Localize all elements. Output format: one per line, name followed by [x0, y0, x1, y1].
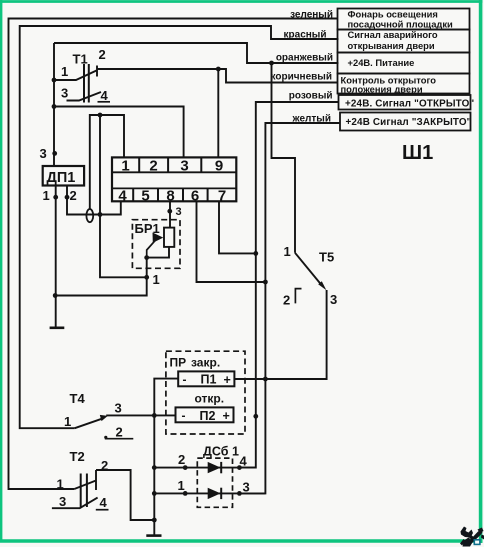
svg-text:положения двери: положения двери — [341, 84, 423, 95]
DS1 pin 2 terminal — [183, 465, 188, 470]
wire DS1 pin 2 row — [154, 467, 256, 469]
svg-text:4: 4 — [100, 495, 108, 510]
svg-text:1: 1 — [121, 157, 129, 174]
svg-text:1: 1 — [57, 477, 64, 492]
junction common bus pin1 row — [152, 491, 157, 496]
BR1 element bottom wire to inner node — [147, 247, 169, 258]
screwdriver handle — [463, 538, 474, 547]
signal box 6: +24В. Сигнал ЗАКРЫТО — [340, 113, 472, 131]
svg-text:+: + — [224, 373, 231, 387]
svg-text:2: 2 — [70, 188, 77, 203]
svg-text:3: 3 — [176, 206, 182, 218]
svg-text:П1: П1 — [201, 372, 217, 386]
top row separator line — [112, 171, 236, 173]
T1 pin 3 stub and blade — [67, 92, 102, 101]
junction node at (100,115) — [98, 113, 103, 118]
junction P1+ on yellow bus — [263, 377, 268, 382]
svg-text:9: 9 — [215, 157, 223, 174]
small blue box — [474, 540, 480, 545]
svg-text:красный: красный — [284, 29, 327, 40]
wire P1- left and down the common bus to ground — [154, 379, 178, 536]
ground symbol bottom — [146, 534, 161, 537]
wire left bus to connector cell 3 — [54, 107, 184, 158]
junction BR1 pin 1 — [144, 275, 149, 280]
svg-text:Т5: Т5 — [319, 249, 334, 264]
svg-text:3: 3 — [330, 292, 337, 307]
wire DP1 pin 2 to connector cell 4 — [67, 186, 121, 215]
junction common bus pin2 row — [152, 465, 157, 470]
switch T5 — [283, 244, 337, 307]
T1 pin 2 contact tick — [96, 66, 98, 77]
svg-text:3: 3 — [61, 86, 68, 101]
svg-text:открывания двери: открывания двери — [348, 40, 435, 51]
svg-text:-: - — [182, 409, 186, 423]
svg-text:4: 4 — [101, 88, 109, 103]
svg-text:1: 1 — [43, 188, 50, 203]
svg-text:Т1: Т1 — [73, 52, 88, 67]
wire red bus (красный): from box2 left, jog up, across top and down to T4 pin 1 — [20, 26, 339, 428]
switch T2 — [52, 449, 109, 510]
junction cell3 feed on left bus — [52, 104, 57, 109]
svg-text:-: - — [183, 372, 187, 386]
junction cell7 on pink bus — [253, 251, 258, 256]
svg-text:1: 1 — [64, 414, 71, 429]
T2 pin 3 stub and blade — [52, 498, 98, 509]
DS1 pin 3 terminal — [237, 491, 242, 496]
svg-text:Т4: Т4 — [70, 391, 86, 406]
svg-text:1: 1 — [153, 272, 160, 287]
wire BR1 inner node down to pin 1 and to ground bus — [55, 258, 147, 296]
svg-text:+24В. Сигнал "ОТКРЫТО": +24В. Сигнал "ОТКРЫТО" — [345, 99, 474, 110]
svg-text:2: 2 — [178, 452, 185, 467]
switch T1 — [54, 47, 110, 103]
wire T2 pin 2 over and down to common bus — [96, 470, 154, 520]
relay block BR1 (dashed) — [132, 220, 180, 269]
diode block DS1 (dashed) — [197, 444, 239, 507]
wire connector cell 8 down to BR1 element — [169, 201, 171, 227]
svg-text:+24В Сигнал "ЗАКРЫТО": +24В Сигнал "ЗАКРЫТО" — [346, 117, 472, 128]
svg-text:2: 2 — [99, 47, 106, 62]
svg-text:3: 3 — [180, 157, 188, 174]
top row cell dividers — [139, 157, 201, 172]
T4 pin 2 terminal dot — [104, 436, 107, 439]
wire connector cell 6 to yellow bus — [197, 201, 266, 282]
svg-text:2: 2 — [283, 292, 290, 307]
svg-text:2: 2 — [116, 425, 123, 440]
junction common bus / T4 wire — [152, 413, 157, 418]
ground symbol left — [50, 326, 65, 329]
signal box 4: Контроль открытого положения двери — [338, 74, 470, 95]
wire green bus (зеленый): from box1 left across top and down left side to T2 pin 1 — [9, 19, 338, 490]
BR1 resistor element — [164, 228, 174, 247]
screwdriver shaft and tip — [469, 530, 483, 544]
svg-text:3: 3 — [59, 494, 66, 509]
signal box 2: Сигнал аварийного открывания двери — [338, 29, 470, 52]
T2 pin 2 contact bar — [95, 470, 97, 490]
switch T4 — [64, 391, 133, 440]
wire orange feed (оранжевый): from T1 bus top corner to box3 — [54, 43, 339, 63]
svg-text:П2: П2 — [200, 409, 216, 423]
T1 pin 1 wire and contact blade — [54, 71, 97, 81]
T1 gang bars — [84, 64, 89, 103]
connector block X1 — [112, 157, 236, 204]
signal box 3: +24В. Питание — [338, 53, 470, 74]
svg-text:откр.: откр. — [195, 392, 225, 406]
yellow bus (желтый): from box6 down to DS1 pin 3 — [239, 123, 340, 493]
junction at T1 pin2 branch — [216, 67, 221, 72]
right edge fragment — [481, 535, 484, 540]
svg-text:2: 2 — [149, 157, 157, 174]
solenoid P1 — [178, 371, 234, 386]
svg-text:оранжевый: оранжевый — [276, 53, 333, 64]
wire node down to BR1 pin 1 — [100, 115, 147, 277]
wire T5 pin 3 down to P1+ line — [234, 290, 326, 379]
svg-text:Ш1: Ш1 — [402, 142, 433, 164]
wire DP1 pin 1 down to ground — [55, 186, 57, 328]
bottom row separator line — [112, 187, 236, 189]
T4 pin 2 underline — [105, 438, 134, 440]
svg-text:1: 1 — [61, 64, 68, 79]
T5 blade with arrow — [295, 253, 322, 285]
wire DS1 pin 1 row — [154, 492, 265, 494]
svg-text:зеленый: зеленый — [290, 9, 333, 20]
signal box 1: Фонарь освещения посадочной площадки — [338, 9, 470, 30]
svg-text:посадочной площадки: посадочной площадки — [348, 19, 454, 30]
junction DP1 pin 2 — [65, 195, 70, 200]
left +24V bus from orange corner down to DP1 pin 3 — [53, 43, 55, 166]
solenoid P2 — [176, 407, 234, 423]
junction P2+ on pink bus — [253, 414, 258, 419]
svg-text:6: 6 — [191, 187, 199, 204]
watermark tools icon bottom right — [460, 527, 484, 547]
junction on orange wire — [269, 61, 274, 66]
svg-text:розовый: розовый — [289, 91, 333, 102]
svg-text:закр.: закр. — [191, 356, 220, 370]
svg-text:+24В. Питание: +24В. Питание — [348, 57, 415, 68]
bottom row cell dividers — [133, 188, 207, 201]
svg-text:5: 5 — [141, 187, 149, 204]
T2 pin 1 blade — [74, 481, 96, 490]
junction cell6 on yellow bus — [263, 280, 268, 285]
svg-text:3: 3 — [115, 401, 122, 416]
svg-text:4: 4 — [240, 454, 248, 469]
T5 pin 2 contact mark — [295, 289, 301, 304]
svg-text:1: 1 — [178, 478, 185, 493]
junction node wire at (100,214.5) — [98, 212, 103, 217]
svg-text:1: 1 — [284, 244, 291, 259]
junction BR1 pin 3 — [167, 209, 172, 214]
DS1 pin 4 terminal — [237, 465, 242, 470]
junction DP1 pin 1 — [53, 195, 58, 200]
svg-text:ДП1: ДП1 — [47, 170, 76, 186]
diode VD2 — [208, 488, 221, 499]
junction T1 pin1 on left bus — [52, 78, 57, 83]
crossover ellipse (hop) on DP1 pin2 wire — [86, 209, 93, 222]
node bridge above connector: cell1 feed with hop wire — [90, 115, 124, 210]
svg-text:Т2: Т2 — [70, 449, 85, 464]
wrench jaw — [461, 527, 474, 538]
svg-text:коричневый: коричневый — [271, 71, 332, 82]
wire connector cell 7 to pink bus — [219, 201, 256, 253]
BR1 arrow — [147, 240, 156, 257]
svg-text:+: + — [223, 409, 230, 423]
T1 pin 4 underline — [98, 101, 111, 103]
wire branch down to connector cell 9 — [217, 69, 219, 157]
wire T4 pin3 to P2- — [106, 414, 175, 416]
T2 pin 4 underline — [96, 509, 109, 511]
T2 gang bars — [81, 474, 87, 508]
junction BR1 inner node — [144, 255, 149, 260]
svg-text:4: 4 — [118, 187, 127, 204]
diode VD1 — [208, 462, 221, 473]
sensor DP1 — [43, 166, 84, 186]
junction T2 pin2 on common bus — [152, 518, 157, 523]
DS1 pin 1 terminal — [183, 491, 188, 496]
svg-text:3: 3 — [40, 146, 47, 161]
wrench handle — [468, 534, 479, 544]
svg-text:3: 3 — [243, 480, 250, 495]
junction on ground bus — [53, 293, 58, 298]
signal box 5: +24В. Сигнал ОТКРЫТО — [339, 95, 475, 110]
svg-text:БР1: БР1 — [135, 221, 160, 236]
svg-text:Сигнал аварийного: Сигнал аварийного — [348, 29, 438, 40]
relay box PR (dashed) — [166, 351, 245, 434]
wire T1 pin2 to connector pin 9 and brown box (коричневый) — [97, 69, 338, 83]
wire orange junction down and over to T5 pin 1 — [272, 63, 296, 253]
svg-text:ДСб 1: ДСб 1 — [203, 444, 239, 458]
junction DP1 pin3 — [52, 151, 57, 156]
pink bus (розовый): from box5 down to DS1 pin 4 — [239, 102, 338, 468]
svg-text:ПР: ПР — [170, 356, 187, 370]
screwdriver tip flag — [478, 528, 484, 534]
T4 blade with arrow — [75, 419, 102, 429]
